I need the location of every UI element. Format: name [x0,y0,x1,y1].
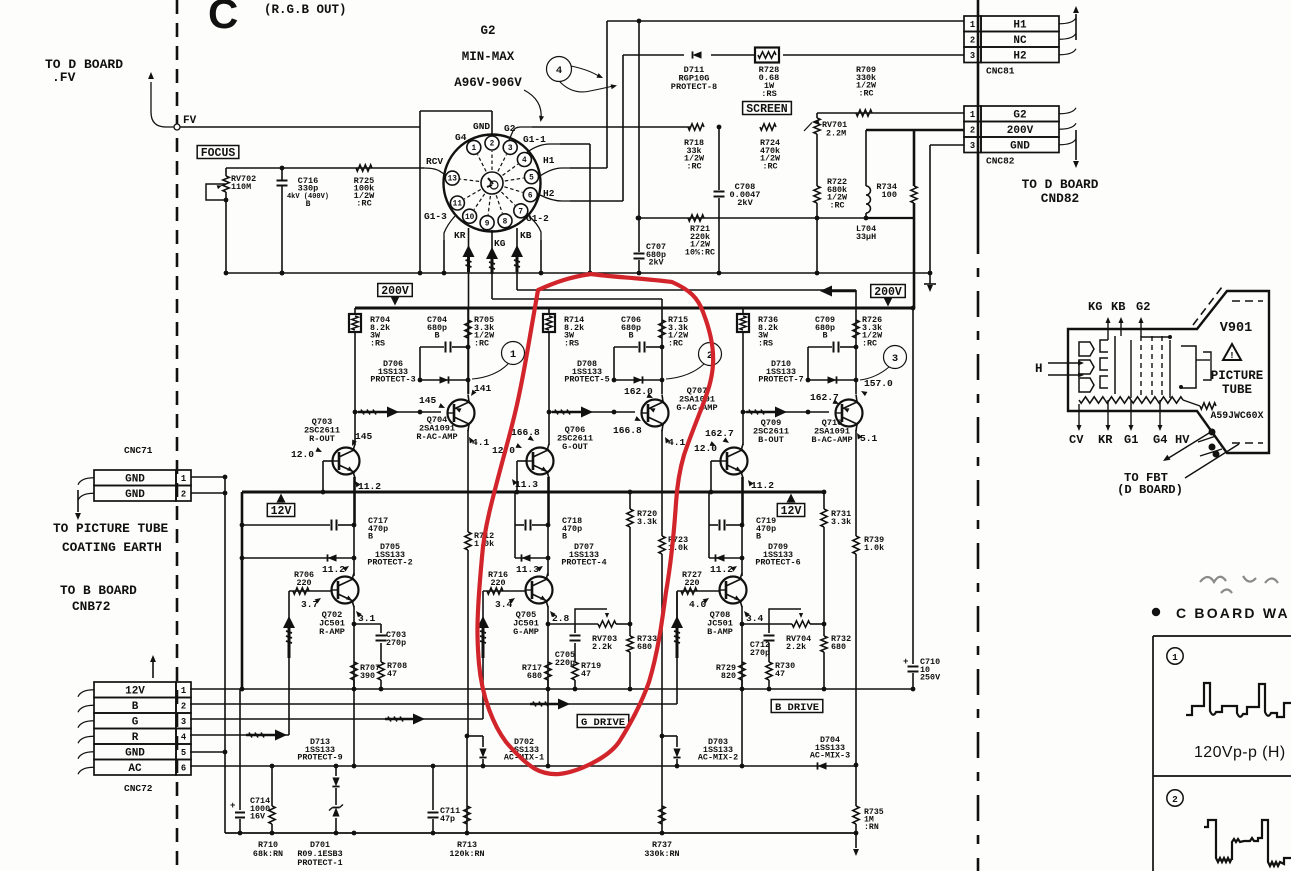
svg-text:3.3k: 3.3k [637,517,657,527]
signal in arrow Q702 [283,591,295,658]
tube anode bracket [1141,335,1211,389]
label FV [183,115,197,127]
tube grids dashed [1131,336,1170,398]
svg-text:PROTECT-1: PROTECT-1 [297,858,342,868]
socket pin 8 [496,195,512,228]
wire left vertical C718 block [514,492,516,558]
label G DRIVE [577,715,629,729]
label Q705 [513,610,539,637]
svg-text:FV: FV [183,115,197,127]
svg-text:H: H [1035,362,1043,376]
svg-text:2.2M: 2.2M [826,129,846,139]
chassis arrow GND [924,284,936,292]
svg-text:GND: GND [1010,140,1030,152]
svg-text:162.7: 162.7 [705,428,734,439]
socket pin 3 [498,140,517,171]
label V901 [1220,321,1252,336]
end arrow below R735 [853,766,859,856]
voltage label 12.0 [492,443,523,456]
wire screen bus resistors [688,124,776,130]
wire pin3 G2 to screen bus [509,127,690,140]
svg-text:2: 2 [490,141,495,149]
svg-text:H1: H1 [543,155,555,166]
label Q708 [707,610,733,637]
rail 200V thick [355,307,914,310]
svg-text:47: 47 [387,669,397,679]
voltage label 162.7 [705,428,734,445]
wire Q709 emitter down [741,472,743,526]
header (R.G.B OUT) [264,3,347,17]
voltage emitter 2.8 [548,609,569,624]
capacitor C706 680p [614,315,664,380]
socket pin 13 [445,171,479,185]
svg-text:B: B [562,532,567,542]
svg-text:C BOARD WA: C BOARD WA [1176,605,1290,621]
voltage label 5.1 [855,432,878,444]
svg-text:H2: H2 [1013,50,1026,62]
svg-text:R-AMP: R-AMP [319,627,345,637]
voltage emitter 3.4 [742,609,763,624]
label B DRIVE [771,700,823,714]
capacitor C717 470p [242,516,388,542]
resistor R723 1.0k [659,492,688,736]
voltage label 145 [350,431,373,447]
label TO B BOARD CNB72 [60,583,137,614]
label 200V right [871,285,906,307]
svg-text:AC-MIX-3: AC-MIX-3 [810,751,850,761]
svg-text:100: 100 [882,190,897,200]
svg-text:145: 145 [419,395,437,406]
wire FOCUS line [226,168,447,176]
connector CNC71 (GND GND) [75,445,227,520]
socket pin 10 [463,194,485,223]
svg-text:12V: 12V [781,505,802,518]
svg-text:GND: GND [473,121,490,132]
diode D702 1SS133 AC-MIX-1 [465,734,545,766]
socket label G1-2 [526,213,549,224]
svg-text:2kV: 2kV [737,198,753,208]
resistor R725 100k [354,165,375,209]
diode D706 1SS133 [370,359,470,385]
svg-text:220: 220 [490,578,505,588]
resistor R705 3.3k [465,315,495,348]
note G2 MIN-MAX A96V-906V [454,24,522,90]
svg-text::RC: :RC [668,338,683,348]
svg-text:V901: V901 [1220,321,1252,336]
wire R737 column [661,736,663,833]
wire row G signal [190,658,483,725]
wire CNC71/GND vertical [223,477,228,833]
heading C BOARD WAVEFORMS [1152,605,1290,621]
resistor R727 base 220 [677,570,720,594]
pencil marks [1200,576,1278,593]
label Q710 [811,418,852,445]
signal direction arrow near 200V [820,286,856,297]
svg-text:4: 4 [556,65,562,77]
wire CNC82 GND down [928,145,964,284]
svg-text:R-AC-AMP: R-AC-AMP [416,432,457,442]
label Q706 [557,425,593,452]
svg-text::RC: :RC [829,200,844,210]
svg-text:3: 3 [892,353,898,365]
svg-text:10%:RC: 10%:RC [685,247,715,257]
svg-text:390: 390 [360,671,375,681]
resistor R722 680k [814,134,848,275]
svg-text::RC: :RC [356,199,371,209]
wire left vertical C719 block [708,492,710,558]
svg-text:GND: GND [125,747,145,759]
svg-text::RC: :RC [862,338,877,348]
resistor R712 1.0k [465,492,494,736]
svg-text:G2: G2 [1136,300,1150,314]
svg-text:3: 3 [508,145,513,153]
svg-text:B-AC-AMP: B-AC-AMP [811,435,852,445]
voltage label 162.7 [810,392,840,406]
voltage label 11.2 [746,479,774,491]
svg-text:G1: G1 [1124,433,1138,447]
signal arrow KG [486,247,498,274]
resistor R732 680 [821,622,851,692]
label SCREEN [743,102,792,117]
wire Q702 emitter down [352,601,357,692]
wire H1 top bus [607,19,964,24]
resistor R716 base 220 [483,570,526,594]
wire col right R726 [855,308,857,394]
diode D709 1SS133 [709,542,801,568]
wire Q708 collector link [740,573,742,580]
label Q709 [753,418,789,445]
pot RV704 2.2k [769,609,824,652]
label H with arrows [1035,360,1084,377]
svg-text::RC: :RC [686,161,701,171]
wire Q703 emitter down [353,472,355,526]
svg-text:B: B [368,532,373,542]
transistor Q702 JC501 (NPN AMP) [332,577,359,604]
capacitor C704 680p [420,315,470,380]
base line with signal arrow [547,407,635,418]
svg-text:11.3: 11.3 [515,479,538,490]
svg-text:166.8: 166.8 [511,427,540,438]
capacitor C705 [548,624,581,668]
inductor L704 33uH [856,130,876,242]
wire row B signal [190,592,677,710]
svg-text:(R.G.B OUT): (R.G.B OUT) [264,3,347,17]
resistor R731 3.3k [821,490,851,624]
svg-text:2: 2 [970,125,975,135]
wire R721 line [636,216,914,221]
svg-text:TO PICTURE TUBE: TO PICTURE TUBE [53,521,169,536]
svg-text:3.3k: 3.3k [831,517,851,527]
svg-text:A96V-906V: A96V-906V [454,76,522,90]
voltage base 3.7 [301,596,322,610]
label A59JWC60X [1211,410,1264,421]
label 12V left [267,494,294,519]
diode D708 1SS133 [564,359,664,385]
svg-text:820: 820 [721,671,736,681]
wire H2 line [623,54,964,56]
wire col right R715 [661,308,663,394]
diode D705 1SS133 [242,542,413,568]
socket label G1-1 [523,134,546,145]
tube internal resistor zigzag [1079,397,1216,409]
base line with signal arrow [741,407,829,418]
svg-text:B: B [822,331,827,341]
resistor R724 470k [760,138,781,171]
svg-text:3: 3 [181,717,186,727]
svg-text:PROTECT-7: PROTECT-7 [758,375,803,385]
svg-text:250V: 250V [920,673,941,683]
callout circle 1 [472,342,525,380]
svg-text:PROTECT-9: PROTECT-9 [297,753,342,763]
resistor R706 base 220 [289,570,332,594]
socket label G1-3 [424,211,447,222]
voltage label 12.0 [694,441,717,454]
svg-text:13: 13 [448,176,458,184]
arrow to FBT [1161,430,1239,478]
arrows CV KR G1 G4 [1076,400,1162,431]
wire KB cathode line [517,228,856,308]
svg-text:47p: 47p [440,814,455,824]
svg-text:AC-MIX-2: AC-MIX-2 [698,753,738,763]
socket label H1 [543,155,555,166]
wire 200V col R704 [354,308,356,412]
resistor R726 3.3k [853,315,883,348]
svg-text:4.1: 4.1 [668,437,686,448]
svg-text:2.2k: 2.2k [592,642,612,652]
picture tube V901 outline [1068,291,1269,453]
socket label G4 [455,132,467,143]
svg-text:68k:RN: 68k:RN [253,849,283,859]
svg-text:PROTECT-4: PROTECT-4 [561,558,606,568]
connector CNC81 (H1 NC H2) [964,6,1079,77]
label TO FBT (D BOARD) [1117,471,1183,497]
resistor R736 8.2k (fusible) [737,314,778,348]
svg-text:11.2: 11.2 [322,564,345,575]
socket pin 9 [480,196,494,230]
svg-text:H1: H1 [1013,19,1027,31]
svg-text:270p: 270p [750,648,770,658]
label Q703 [304,417,340,444]
resistor R720 3.3k [627,490,657,624]
socket label G2 [504,123,516,134]
socket label H2 [543,188,555,199]
svg-text:1: 1 [1172,652,1178,663]
voltage label 162.0 [624,386,654,400]
label Q707 [676,386,717,413]
svg-text:6: 6 [181,763,186,773]
socket pin 2 [485,136,499,170]
pot RV701 2.2M [804,113,847,139]
socket label KB [520,230,532,241]
wire Q707 emitter [662,395,663,403]
svg-text:KR: KR [454,230,466,241]
transistor Q704 2SA1091 (PNP AC-AMP) [448,400,475,427]
svg-text:CNC71: CNC71 [124,445,153,456]
svg-text:G-AC-AMP: G-AC-AMP [676,403,717,413]
svg-text::RS: :RS [758,338,773,348]
board border right (solid then dash-dot) [977,0,980,871]
resistor R721 220k [685,215,715,258]
pot RV702 110M [206,168,256,273]
transistor Q709 2SC2611 (NPN OUT) [721,448,748,475]
svg-text:330k:RN: 330k:RN [644,849,679,859]
wire 200V col R714 [548,308,550,412]
capacitor C719 470p [709,516,776,542]
bus bottom [225,832,856,834]
svg-text:GND: GND [125,489,145,501]
resistor R714 8.2k (fusible) [543,314,584,348]
svg-text:4: 4 [522,157,527,165]
capacitor C711 47p [428,766,461,835]
resistor R715 3.3k [659,315,689,348]
svg-text:B DRIVE: B DRIVE [775,702,819,714]
waveform 2 [1204,820,1291,866]
svg-text:141: 141 [474,383,492,394]
wire 200V feed thick [866,130,964,308]
svg-text:G-AMP: G-AMP [513,627,539,637]
svg-text:B: B [306,200,311,209]
label Q704 [416,415,457,442]
svg-text:47: 47 [775,669,785,679]
voltage label 12.0 [291,447,323,460]
arrows KG KB G2 [1105,317,1143,340]
svg-text:+: + [903,657,908,667]
wire Q709 collector [741,412,743,451]
resistor R709 330k [856,65,877,98]
wire Q708 emitter to AC [740,689,745,768]
svg-text:KB: KB [1111,300,1125,314]
wire pin6 H2 [540,55,623,201]
socket pin 6 [504,187,537,202]
svg-text:G: G [132,716,139,728]
svg-text:166.8: 166.8 [613,425,642,436]
svg-text:HV: HV [1175,433,1190,447]
callout arrows from 4 [560,66,618,92]
wire Q702 emitter to AC [353,689,355,766]
svg-text:KG: KG [1088,300,1102,314]
voltage label 157.0 [860,378,893,396]
rail 12V thick [242,491,825,494]
svg-text:CNC72: CNC72 [124,783,153,794]
svg-text:1: 1 [181,686,186,696]
wire 200V right col to C710 [911,306,916,664]
wire collector column Q702 [353,477,355,576]
voltage label 145 [419,395,446,410]
svg-text:G-OUT: G-OUT [562,442,588,452]
svg-text:200V: 200V [381,285,409,298]
resistor R704 8.2k (fusible) [349,314,390,348]
resistor R735 1M [853,806,884,835]
capacitor C709 680p [808,315,858,380]
capacitor C710 10 250V [903,657,941,691]
socket label KR [454,230,466,241]
svg-text:TO D BOARD: TO D BOARD [1022,177,1099,192]
connector CNC72 (12V B G R GND AC) [78,682,191,794]
label TO D BOARD CND82 [1022,177,1099,206]
svg-text:CNC82: CNC82 [986,156,1015,167]
svg-text:11.2: 11.2 [358,481,381,492]
wire FV to D board with arrow [148,72,174,127]
label FOCUS [197,146,239,161]
svg-text:PROTECT-6: PROTECT-6 [755,558,800,568]
svg-text:COATING EARTH: COATING EARTH [62,540,162,555]
svg-text:PICTURE: PICTURE [1211,369,1264,383]
svg-text::RC: :RC [474,338,489,348]
bus 12V bottom [190,688,913,690]
svg-text::RC: :RC [762,161,777,171]
svg-text:1: 1 [471,145,476,153]
bus 200V horizontal [224,271,930,276]
resistor R733 680 [627,622,657,692]
arrow TO B BOARD [150,655,156,678]
svg-text:CNC81: CNC81 [986,66,1015,77]
socket pin 11 [450,190,480,211]
svg-text:TO B BOARD: TO B BOARD [60,583,137,598]
waveform callout 1 [1167,648,1183,664]
svg-text:10: 10 [465,214,475,222]
svg-text:2: 2 [181,701,186,711]
waveform callout 2 [1167,790,1183,806]
svg-text:MIN-MAX: MIN-MAX [462,50,515,64]
svg-text:KB: KB [520,230,532,241]
waveform panel box [1153,636,1291,871]
svg-text:B: B [132,701,139,713]
socket pin 4 [503,153,532,176]
resistor R710 68k [253,766,283,859]
voltage label 4.1 [663,436,686,448]
label 120Vp-p (H) [1194,744,1286,761]
voltage 11.x near D705 [322,564,350,575]
voltage label 11.3 [510,478,538,490]
vertical from top bus [637,21,642,220]
svg-text:3: 3 [970,141,975,151]
zener D701 R09.1ESB3 PROTECT-1 [297,805,343,869]
svg-text:16V: 16V [250,812,266,822]
wire RV701 to CNC82 G2 [817,110,964,116]
wire row GND [190,751,225,753]
svg-text:680: 680 [527,671,542,681]
label Q702 [319,610,345,637]
resistor R734 100 [876,182,917,203]
svg-text:C: C [208,0,238,37]
transistor Q706 2SC2611 (NPN OUT) [527,448,554,475]
voltage label 166.8 [511,427,540,443]
svg-text:KR: KR [1098,433,1113,447]
svg-text:G1-1: G1-1 [523,134,546,145]
svg-text:CNB72: CNB72 [72,599,110,614]
diode D713 1SS133 PROTECT-9 [297,737,342,805]
svg-text:11: 11 [453,201,463,209]
svg-text:3: 3 [970,51,975,61]
connector CNC82 (G2 200V GND) [964,106,1079,168]
resistor R728 (fusible) 0.68 [755,48,779,100]
capacitor C714 1000 16V [230,689,270,835]
svg-text:G1-3: G1-3 [424,211,447,222]
svg-text:200V: 200V [874,286,902,299]
base line with signal arrow [353,407,441,418]
svg-text:B-AMP: B-AMP [707,627,733,637]
svg-text:TUBE: TUBE [1222,383,1252,397]
CRT socket outline [444,135,541,232]
label TO D BOARD .FV [45,57,123,85]
socket pin 7 [501,192,527,218]
diode D711 RGP10G [671,51,717,92]
svg-text:2: 2 [181,489,186,499]
svg-text:SCREEN: SCREEN [746,103,788,116]
resistor R707 [351,662,380,689]
svg-text:1.0k: 1.0k [864,543,884,553]
svg-text:CV: CV [1069,433,1084,447]
